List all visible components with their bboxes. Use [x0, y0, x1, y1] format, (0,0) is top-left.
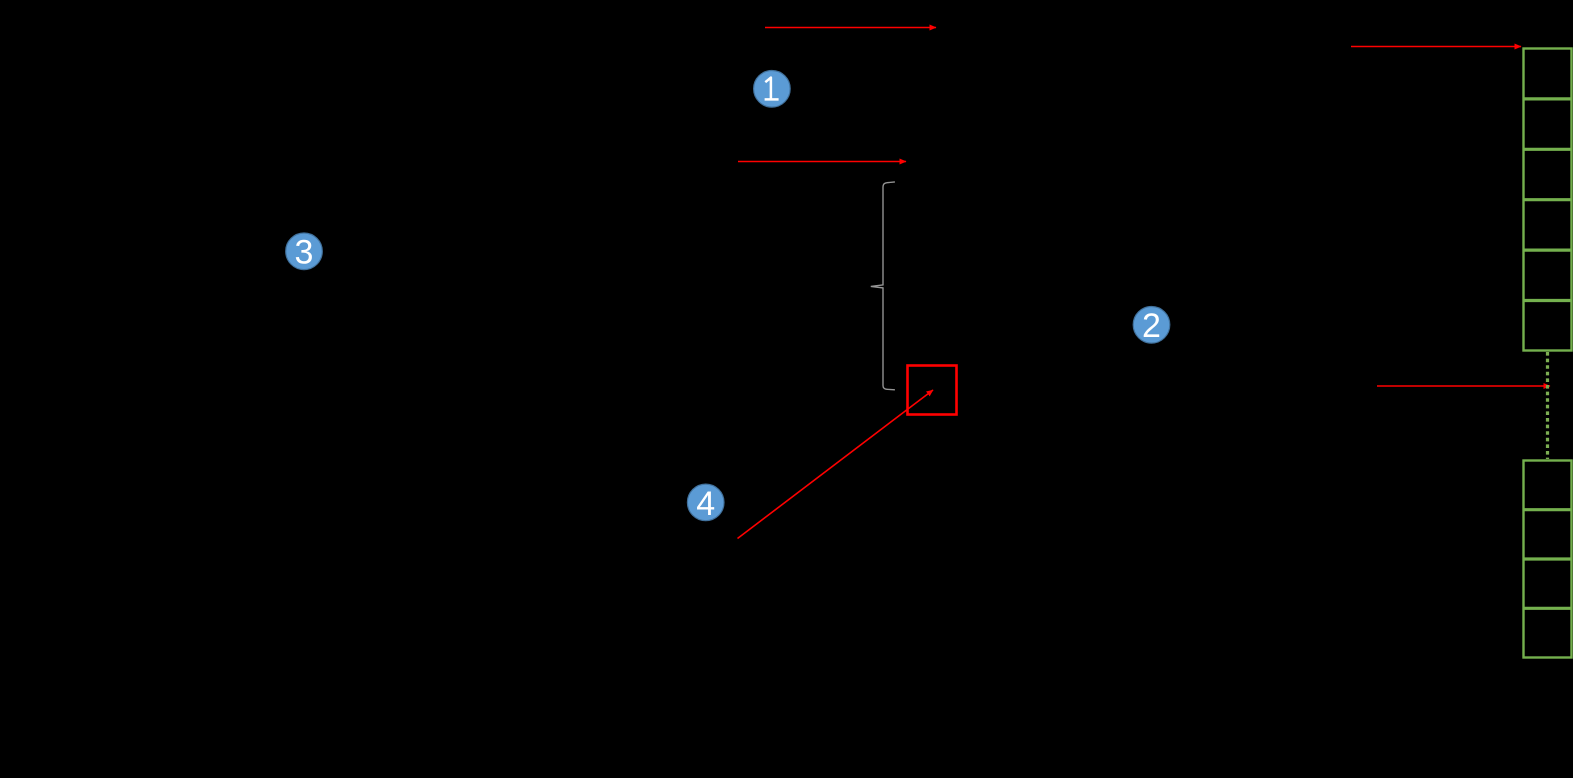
svg-text:3: 3 — [295, 234, 314, 272]
svg-text:2: 2 — [1142, 307, 1161, 345]
svg-text:4: 4 — [696, 485, 715, 523]
